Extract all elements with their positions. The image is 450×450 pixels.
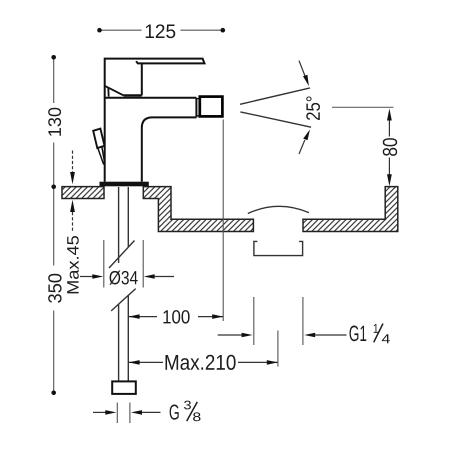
dim 100 right arrow — [212, 314, 223, 319]
dim 130-350 vertical line — [53, 57, 55, 393]
dim 100 left arrow — [129, 314, 140, 319]
spout arm right edge — [195, 98, 197, 118]
water surface arc — [248, 206, 309, 213]
dim 125 line — [100, 29, 223, 31]
faucet body outline — [105, 59, 205, 182]
spout arm bottom with fillet — [142, 117, 197, 128]
dim 125 end dots — [97, 28, 102, 33]
dim G3/8 left arrow — [93, 411, 106, 413]
dim 130 text — [48, 108, 61, 136]
dim O34 text — [109, 271, 137, 285]
dim Max.210 line — [129, 361, 278, 363]
supply pipe upper segment — [119, 187, 129, 263]
dim Max.45 up arrow — [70, 200, 75, 212]
dim 125 text — [146, 24, 176, 38]
label G1-1/4 numerator — [374, 324, 378, 333]
spout arm top — [105, 97, 197, 99]
label G3/8 denominator — [193, 412, 200, 421]
label G1-1/4 denominator — [382, 334, 390, 343]
dim line dots — [51, 55, 56, 60]
drain hole U outline — [254, 241, 303, 255]
deck left section (hatched) — [62, 187, 104, 199]
dim 25deg text — [306, 97, 320, 120]
column right edge — [141, 128, 143, 182]
angle upper arrow — [299, 61, 305, 76]
dim 350 text — [48, 274, 61, 303]
label G3/8 G — [170, 404, 179, 419]
drain center extension line — [277, 331, 279, 367]
dim 80 up arrow — [387, 109, 392, 121]
head right edge — [141, 63, 143, 95]
dim G1-1/4 left arrow — [218, 334, 242, 336]
dim O34 extension lines — [104, 240, 143, 288]
G3/8 end nut — [112, 381, 136, 394]
pipe break slash 1 — [109, 241, 135, 269]
head bottom — [124, 94, 142, 96]
pipe break slash 2 — [111, 289, 136, 311]
spray cone lower line — [240, 112, 311, 127]
dim 80 down arrow — [387, 174, 392, 186]
dim Max.210 text — [165, 355, 235, 370]
deck right L section (hatched) — [303, 187, 398, 232]
base plate — [100, 182, 149, 187]
label G3/8 numerator — [184, 401, 191, 410]
dim Max.210 left arrow — [129, 360, 140, 365]
dim G3/8 extension lines — [117, 403, 130, 424]
aerator extension line — [222, 120, 224, 322]
spray cone upper line — [240, 88, 310, 104]
dim Max.45 text — [67, 236, 79, 293]
head chamfer — [105, 86, 124, 97]
label G1-1/4 G1 — [350, 325, 367, 341]
dim 100 line — [129, 316, 224, 318]
aerator gap connectors — [196, 99, 199, 116]
drain rod handle — [93, 129, 104, 148]
dim 100 text — [163, 310, 189, 324]
supply pipe lower segment — [119, 295, 129, 381]
dim O34 left arrow — [80, 276, 93, 278]
dim G1-1/4 right arrow — [304, 333, 315, 338]
angle lower arrow — [299, 140, 305, 154]
drain side extension lines — [254, 297, 303, 345]
outlet level reference line — [332, 106, 393, 108]
dim Max.210 right arrow — [267, 360, 278, 365]
dim 80 line — [388, 120, 390, 176]
drain rod — [98, 147, 105, 164]
dim G3/8 right arrow — [131, 410, 142, 415]
aerator nozzle — [200, 97, 223, 117]
deck middle Z section (hatched) — [143, 187, 253, 232]
dim Max.45 down arrow — [72, 151, 74, 173]
label G1-1/4 fraction slash — [374, 324, 383, 343]
dim 80 text — [383, 138, 397, 156]
label G3/8 fraction slash — [187, 402, 198, 421]
dim O34 right arrow — [144, 274, 155, 279]
